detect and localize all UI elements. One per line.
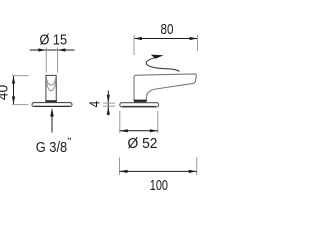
arrow down to flange top: [107, 95, 110, 103]
dim 40 vertical line: [13, 76, 15, 104]
svg-text:G 3/8: G 3/8: [36, 139, 67, 156]
ext tick bottom: [12, 104, 29, 106]
Ø52 ext left: [119, 111, 121, 133]
flange side view: [120, 103, 159, 107]
dark hub base bar: [134, 100, 147, 103]
flange bottom accent: [34, 105, 70, 107]
arrow down: [12, 96, 15, 104]
dark neck bar: [45, 100, 56, 102]
lever nose arc 1: [46, 76, 56, 85]
svg-text:Ø 15: Ø 15: [40, 31, 68, 48]
dim 4 vertical line: [107, 91, 109, 116]
extension line right: [57, 47, 59, 72]
extension line left: [45, 47, 47, 72]
ext tick top: [12, 75, 29, 77]
arrow right (points left): [58, 48, 66, 51]
lever nose arc 2: [46, 80, 56, 91]
arrow up to flange bottom: [107, 107, 110, 115]
svg-text:100: 100: [150, 177, 168, 194]
shaft (stem front view): [46, 75, 56, 101]
flange (base, edge view): [32, 103, 72, 107]
100 ext right: [196, 157, 198, 175]
dim line Ø15: [30, 49, 75, 51]
svg-text:4: 4: [87, 101, 104, 107]
arrow up: [12, 76, 15, 84]
Ø52 ext right: [157, 111, 159, 133]
100 dim line: [120, 170, 197, 172]
svg-text:Ø 52: Ø 52: [128, 135, 158, 152]
arrow left (points right): [38, 48, 46, 51]
100 ext left: [119, 157, 121, 175]
rotation arrow: [146, 58, 179, 72]
ext line left: [133, 35, 135, 55]
lever body (side view): [134, 74, 196, 101]
ext line right: [197, 35, 199, 51]
flange bottom accent (right view): [122, 105, 156, 107]
tick flange bottom: [103, 105, 115, 107]
leader arrow G3/8: [51, 113, 53, 133]
tick flange top: [103, 102, 115, 104]
dim line 80: [134, 38, 198, 40]
svg-text:40: 40: [0, 85, 12, 101]
svg-text:80: 80: [161, 21, 174, 38]
svg-text:": ": [67, 136, 71, 148]
Ø52 dim line: [120, 130, 158, 132]
